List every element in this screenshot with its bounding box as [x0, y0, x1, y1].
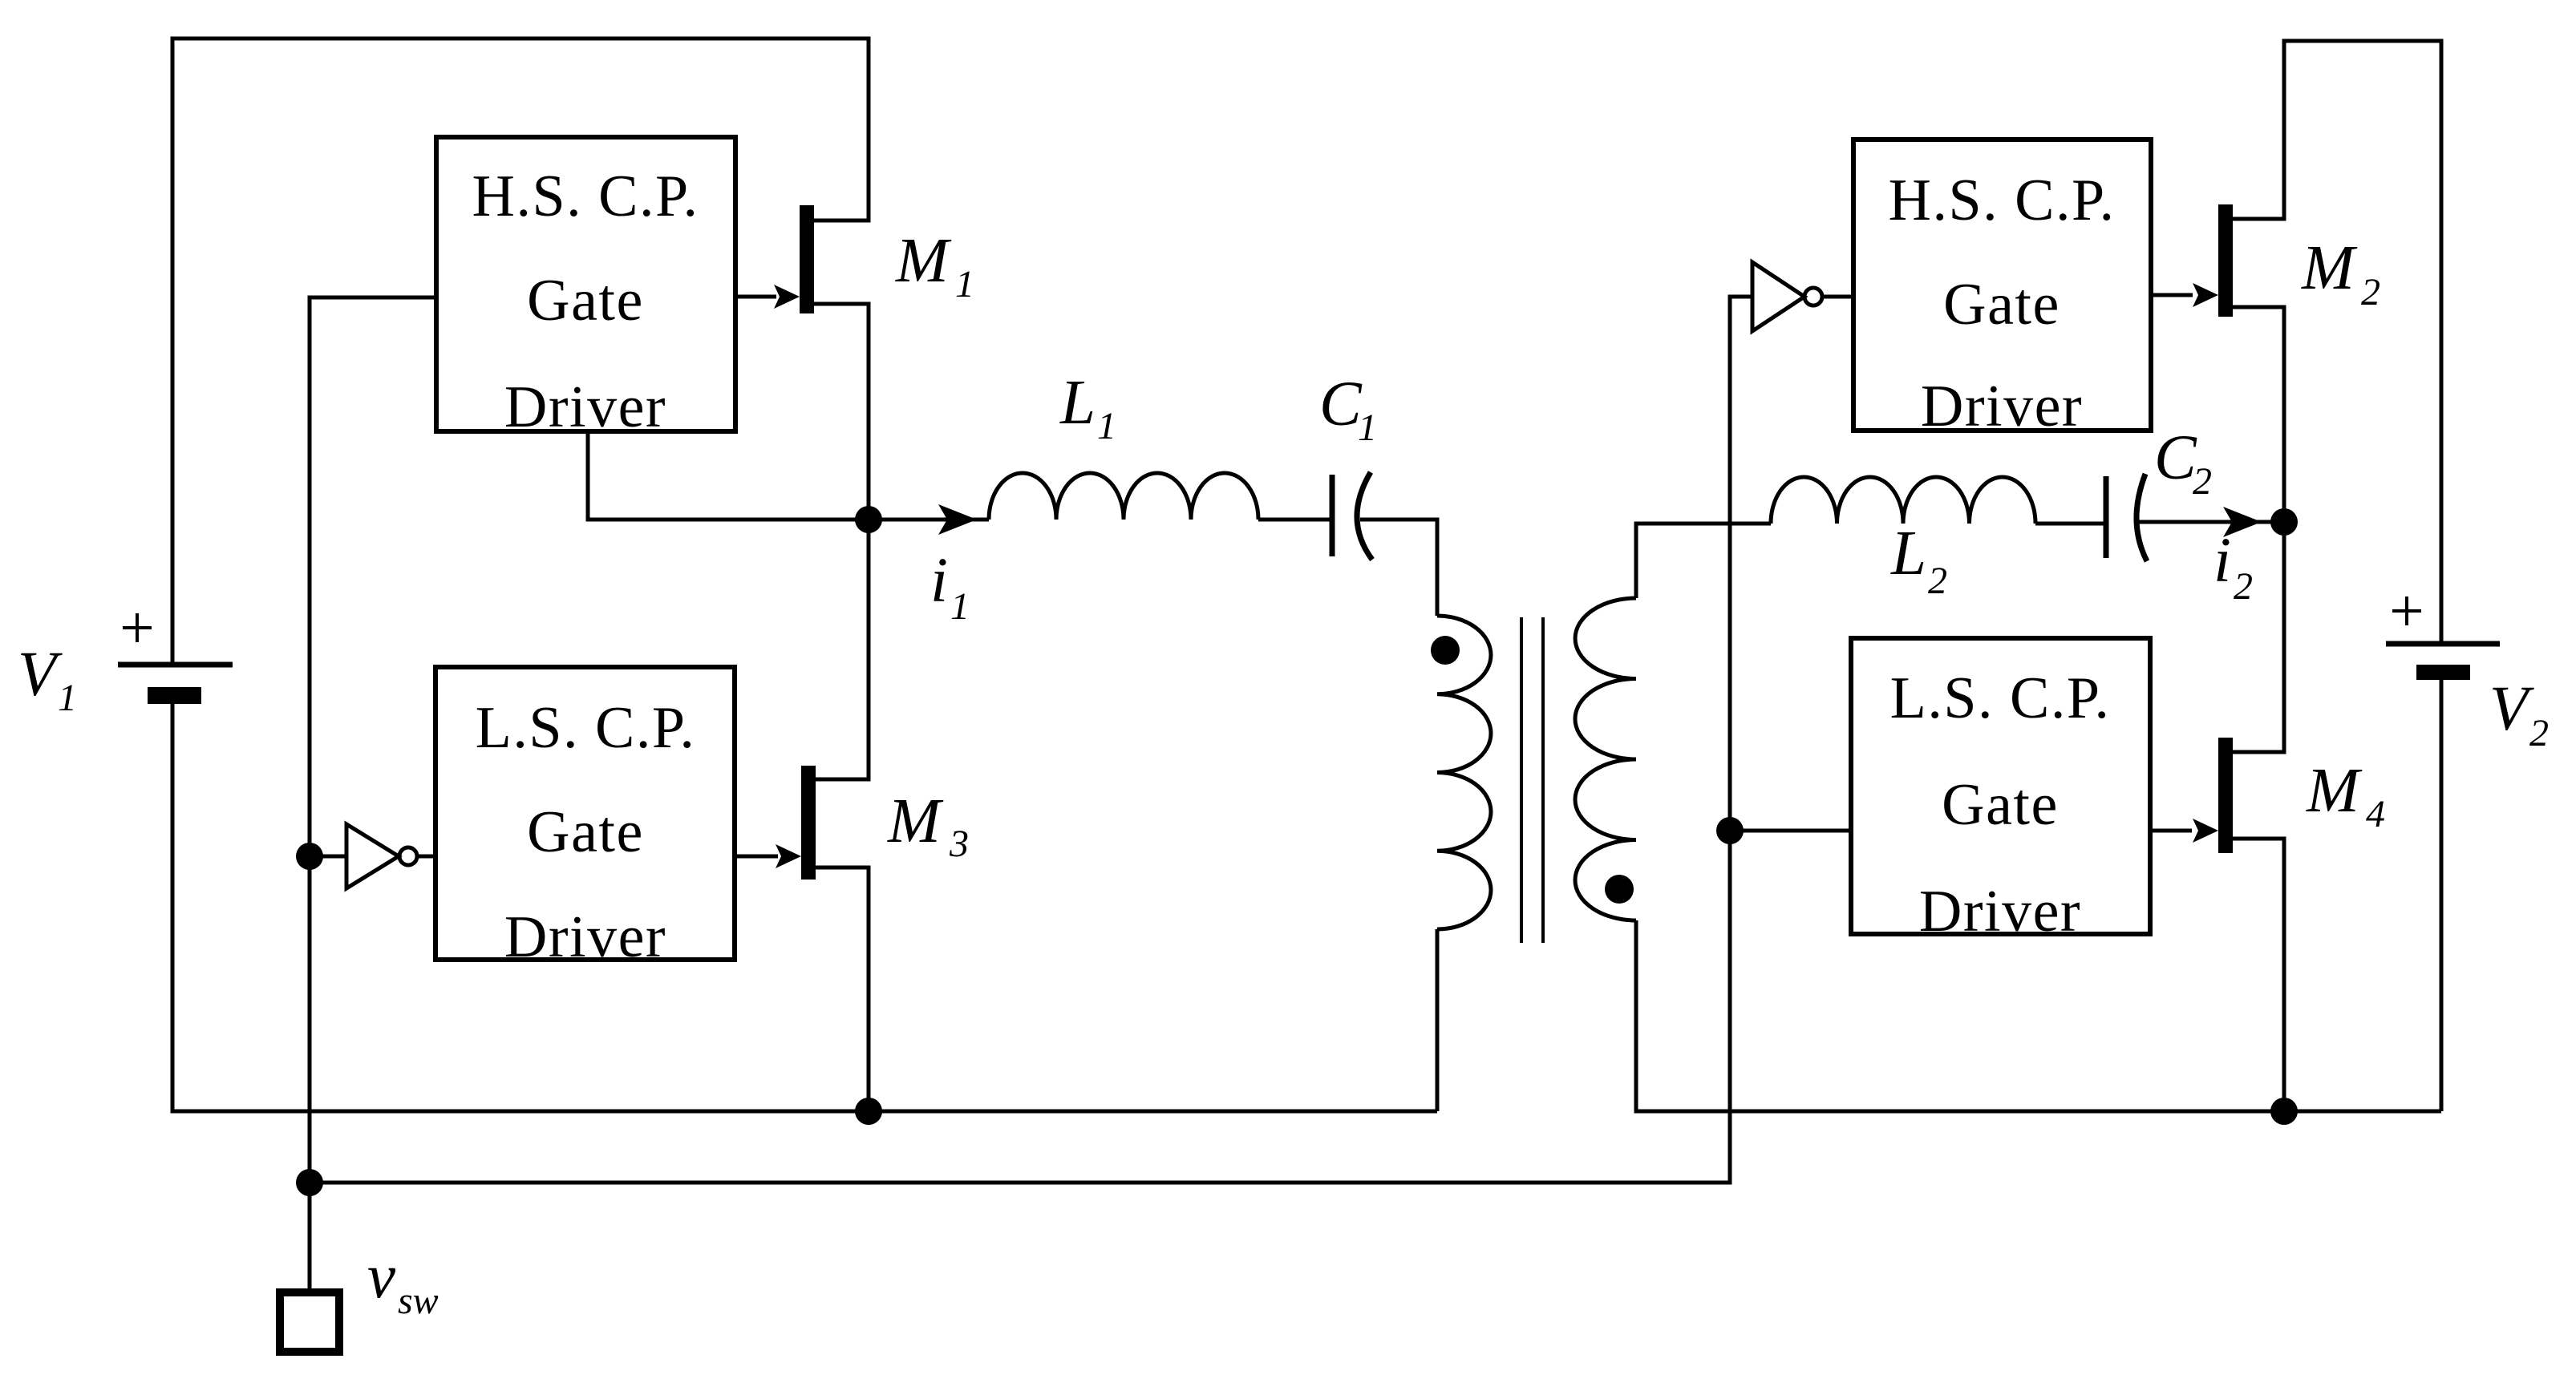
- svg-text:M: M: [2301, 233, 2358, 303]
- svg-text:Driver: Driver: [504, 374, 666, 440]
- node vsw rail tap left: [296, 1169, 323, 1196]
- svg-text:2: 2: [2234, 565, 2253, 608]
- transistor M2: [2151, 204, 2233, 317]
- transformer secondary winding: [1575, 598, 1636, 920]
- svg-text:C: C: [1319, 370, 1363, 439]
- svg-text:H.S. C.P.: H.S. C.P.: [1889, 168, 2116, 233]
- label V2: [2489, 674, 2549, 754]
- svg-text:Gate: Gate: [1943, 272, 2060, 338]
- current arrow i1: [869, 504, 989, 535]
- svg-text:1: 1: [950, 585, 970, 628]
- current arrow i2 to node i2: [2135, 507, 2284, 537]
- svg-text:1: 1: [1097, 405, 1116, 447]
- wire L2 to C2: [2035, 522, 2106, 526]
- label L1: [1059, 368, 1116, 447]
- wire vsw rail to right inverter: [310, 297, 1752, 1183]
- wire C1 to transformer primary: [1360, 520, 1437, 616]
- transformer polarity dot primary: [1431, 636, 1460, 665]
- inverter left: [310, 824, 435, 888]
- label i2: [2213, 526, 2253, 608]
- label M1: [895, 226, 974, 305]
- wire secondary bottom lead to bottom rail right: [1636, 920, 2441, 1111]
- transformer primary winding: [1437, 616, 1491, 929]
- svg-text:L: L: [1059, 368, 1096, 438]
- svg-text:L: L: [1890, 519, 1926, 588]
- battery V1: [118, 613, 233, 704]
- svg-text:V: V: [2489, 674, 2534, 744]
- svg-text:1: 1: [955, 263, 974, 305]
- transistor M3: [735, 766, 816, 880]
- node L.S. driver tap right: [1716, 817, 1744, 844]
- svg-text:i: i: [930, 546, 948, 616]
- label C2: [2154, 423, 2212, 503]
- battery V2: [2386, 596, 2500, 680]
- box L.S. C.P. gate driver right: [1851, 638, 2150, 944]
- label M2: [2301, 233, 2380, 313]
- svg-text:C: C: [2154, 423, 2197, 493]
- svg-text:V: V: [18, 640, 63, 710]
- node inverter tap left: [296, 843, 323, 870]
- svg-text:1: 1: [58, 677, 77, 719]
- label V1: [18, 640, 77, 719]
- wire V2- to bottom rail right: [2440, 680, 2444, 1111]
- transformer core: [1521, 617, 1543, 943]
- box H.S. C.P. gate driver right: [1853, 140, 2151, 439]
- svg-text:1: 1: [1358, 406, 1377, 449]
- svg-text:2: 2: [2529, 712, 2549, 754]
- wire primary bottom lead: [1436, 929, 1440, 1111]
- svg-text:2: 2: [2361, 271, 2380, 313]
- node M4 source junction on bottom rail: [2270, 1098, 2298, 1125]
- transformer polarity dot secondary: [1605, 875, 1634, 904]
- svg-text:Driver: Driver: [1919, 879, 2081, 944]
- svg-text:Gate: Gate: [527, 268, 644, 334]
- wire V1+ top rail to M1 drain: [172, 38, 869, 665]
- node M3 source junction on bottom rail: [855, 1098, 882, 1125]
- label C1: [1319, 370, 1377, 449]
- svg-text:M: M: [2306, 756, 2363, 826]
- svg-text:Driver: Driver: [504, 904, 666, 970]
- label L2: [1890, 519, 1947, 602]
- inductor L1: [989, 473, 1258, 520]
- node i1 junction: [855, 506, 882, 533]
- svg-text:2: 2: [2193, 460, 2212, 503]
- node i2 junction: [2270, 508, 2298, 536]
- transistor M1: [735, 205, 814, 313]
- wire H.S. driver bottom stub to node i1: [588, 431, 869, 520]
- svg-text:M: M: [887, 787, 944, 856]
- svg-text:i: i: [2213, 526, 2231, 596]
- wire gate input rail left (vsw net): [310, 297, 436, 1292]
- inverter right: [1752, 262, 1853, 331]
- svg-text:Gate: Gate: [527, 799, 644, 865]
- svg-text:Gate: Gate: [1942, 772, 2059, 838]
- label M3: [887, 787, 969, 865]
- svg-text:Driver: Driver: [1921, 374, 2083, 439]
- svg-text:4: 4: [2366, 793, 2385, 835]
- vsw terminal square: [280, 1292, 339, 1352]
- svg-text:L.S. C.P.: L.S. C.P.: [476, 695, 696, 761]
- capacitor C2: [2106, 474, 2147, 561]
- svg-text:v: v: [367, 1242, 396, 1312]
- label vsw: [367, 1242, 439, 1322]
- wire L1 to C1: [1258, 518, 1332, 522]
- svg-text:M: M: [895, 226, 952, 296]
- label M4: [2306, 756, 2385, 835]
- label i1: [930, 546, 970, 628]
- wire M3 source to bottom rail: [814, 867, 869, 1111]
- box H.S. C.P. gate driver left: [436, 137, 735, 440]
- box L.S. C.P. gate driver left: [435, 667, 735, 970]
- wire secondary top lead to L2 row: [1636, 524, 1771, 598]
- wire M1 source to node i1 to M3 drain: [814, 304, 869, 779]
- wire M2 source to node i2 to M4 drain: [2233, 307, 2284, 752]
- svg-text:3: 3: [949, 823, 969, 865]
- svg-text:sw: sw: [398, 1280, 439, 1322]
- wire M4 source to bottom rail: [2233, 839, 2284, 1111]
- transistor M4: [2150, 738, 2233, 853]
- wire tap to L.S. driver right: [1730, 829, 1851, 833]
- inductor L2: [1771, 477, 2035, 524]
- svg-text:2: 2: [1928, 560, 1947, 602]
- capacitor C1: [1332, 472, 1372, 560]
- svg-text:L.S. C.P.: L.S. C.P.: [1890, 665, 2111, 731]
- wire M2 drain to top rail right to V2+: [2233, 41, 2441, 644]
- svg-text:H.S. C.P.: H.S. C.P.: [472, 164, 699, 229]
- wire V1- to bottom rail left: [172, 704, 1437, 1111]
